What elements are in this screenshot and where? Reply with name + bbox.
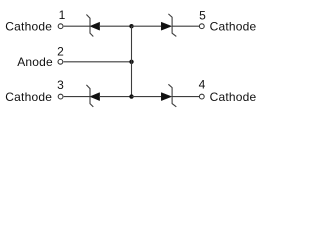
anode bus wire (vertical) (131, 26, 133, 96)
svg-text:Cathode: Cathode (210, 20, 257, 34)
svg-text:3: 3 (57, 78, 64, 92)
pin 4 terminal (199, 94, 204, 99)
wire node C to D4 anode (132, 96, 162, 98)
zener diode D4 (cathode to pin 4) (161, 84, 176, 107)
zener diode D3 (cathode to pin 3) (86, 85, 99, 107)
wire D2 cathode to pin 5 (172, 25, 199, 27)
svg-text:Anode: Anode (17, 55, 53, 69)
wire pin2 to node B (64, 61, 132, 63)
wire node A to D2 anode (132, 25, 162, 27)
junction node C (bottom) (129, 94, 133, 98)
pin 1 terminal (58, 24, 63, 29)
junction node A (top) (129, 24, 133, 28)
wire pin3 to D3 cathode (64, 96, 90, 98)
svg-text:Cathode: Cathode (210, 90, 257, 104)
svg-text:Cathode: Cathode (5, 20, 52, 34)
wire D4 cathode to pin 4 (172, 96, 199, 98)
pin 2 terminal (58, 59, 63, 64)
wire pin1 to D1 cathode (64, 25, 90, 27)
zener diode D2 (cathode to pin 5) (161, 14, 176, 37)
junction node B (middle) (129, 60, 133, 64)
pin 3 terminal (58, 94, 63, 99)
svg-text:4: 4 (199, 78, 206, 92)
pin 5 terminal (199, 24, 204, 29)
wire D3 anode to node C (99, 96, 132, 98)
zener diode D1 (cathode to pin 1) (86, 15, 99, 37)
svg-text:Cathode: Cathode (5, 90, 52, 104)
svg-text:5: 5 (199, 9, 206, 23)
wire D1 anode to node A (99, 25, 132, 27)
svg-text:2: 2 (57, 45, 64, 59)
svg-text:1: 1 (59, 8, 66, 22)
